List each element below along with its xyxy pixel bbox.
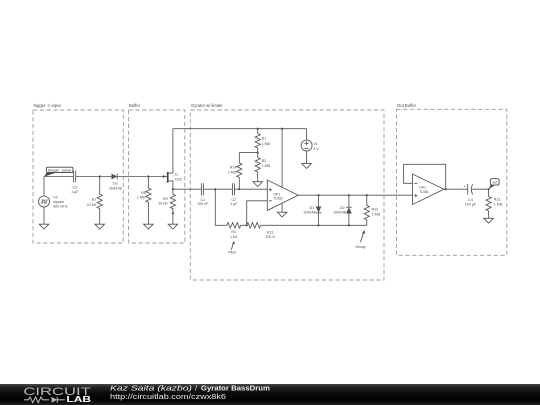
diode D3 1N4148 xyxy=(112,174,118,180)
svg-text:LAB: LAB xyxy=(66,395,91,404)
label OA1 TL081 xyxy=(419,186,429,194)
svg-text:10 kΩ: 10 kΩ xyxy=(158,201,168,205)
label Decay xyxy=(356,245,366,249)
op-amp OP1 TL081 xyxy=(267,180,298,210)
resistor R8 xyxy=(146,177,151,225)
wire J1 drain up xyxy=(172,129,174,173)
wire source node to C1 xyxy=(173,188,202,190)
resistor R14 xyxy=(237,153,242,190)
wire OP1 minus feedback xyxy=(247,201,268,226)
svg-text:1 MΩ: 1 MΩ xyxy=(372,213,381,217)
ground below V1 xyxy=(302,164,312,169)
capacitor C1 xyxy=(201,183,203,195)
junction at R8 top xyxy=(147,175,149,177)
wire V1 top lead xyxy=(306,129,308,140)
svg-text:1N4148: 1N4148 xyxy=(334,211,346,215)
voltage source V1 (5 V) xyxy=(301,140,312,151)
svg-text:D1: D1 xyxy=(310,206,315,210)
svg-text:C2: C2 xyxy=(231,198,236,202)
junction at J1 source node xyxy=(172,188,174,190)
svg-text:http://circuitlab.com/czwx8k6: http://circuitlab.com/czwx8k6 xyxy=(110,392,226,401)
svg-text:D3: D3 xyxy=(113,182,118,186)
label D3 1N4148 xyxy=(109,182,122,191)
section box: trigger -> input xyxy=(33,110,123,243)
section label: Out Buffer xyxy=(397,103,417,108)
voltage source V2 (square 500 mHz) xyxy=(39,196,50,207)
label R11 100 Ohm xyxy=(265,231,275,240)
junction D2 top xyxy=(348,194,350,196)
junction out node xyxy=(488,188,490,190)
svg-text:1 MΩ: 1 MΩ xyxy=(137,196,146,200)
svg-text:R7: R7 xyxy=(92,198,97,202)
resistor R13 xyxy=(486,189,491,218)
wire C3 to D3 xyxy=(76,176,112,178)
ground below R7 xyxy=(95,224,105,229)
svg-text:R12: R12 xyxy=(372,208,379,212)
svg-text:100 µF: 100 µF xyxy=(465,203,477,207)
svg-text:1N4148: 1N4148 xyxy=(303,211,315,215)
svg-text:1 MΩ: 1 MΩ xyxy=(494,203,503,207)
label V2 square 500 mHz xyxy=(53,195,68,208)
section box: Buffer xyxy=(129,110,185,243)
svg-text:Buffer: Buffer xyxy=(129,103,141,108)
svg-text:Gyrator w/ limiter: Gyrator w/ limiter xyxy=(191,103,223,108)
node flag trigger_pulse xyxy=(44,167,73,177)
wire R1R2 node to R14 xyxy=(239,152,257,154)
svg-text:Pitch: Pitch xyxy=(228,251,236,255)
svg-text:10 kΩ: 10 kΩ xyxy=(87,203,97,207)
svg-text:R13: R13 xyxy=(494,198,501,202)
svg-text:TL081: TL081 xyxy=(419,190,429,194)
annotation arrow Pitch xyxy=(231,241,235,250)
resistor R9 xyxy=(170,189,175,224)
transistor J1 (J310 n-JFET) xyxy=(163,172,173,183)
svg-text:C1: C1 xyxy=(200,198,205,202)
svg-text:trigger_pulse: trigger_pulse xyxy=(48,168,72,173)
wire supply line to OP1 xyxy=(281,129,283,188)
svg-text:R1: R1 xyxy=(262,137,267,141)
wire C4 to out node xyxy=(471,188,488,190)
wire V2 top lead xyxy=(43,177,45,197)
ground below V2 xyxy=(39,224,49,229)
ground below R9 xyxy=(168,224,178,229)
label C2 1 uF xyxy=(230,198,238,206)
ground below R2 xyxy=(253,182,263,187)
section label: trigger -&gt; input xyxy=(34,103,62,108)
logo squiggle diode xyxy=(57,397,65,403)
junction OA1 output/feedback xyxy=(445,188,447,190)
resistor R12 xyxy=(364,195,369,225)
label R9 10 kOhm xyxy=(158,197,168,206)
svg-text:100 nF: 100 nF xyxy=(197,202,209,206)
svg-text:D2: D2 xyxy=(340,206,345,210)
svg-text:square: square xyxy=(53,200,64,204)
wire top rail (drain to V1) xyxy=(173,128,307,130)
wire D3 to JFET gate xyxy=(117,176,167,178)
svg-text:1 kΩ: 1 kΩ xyxy=(230,235,238,239)
wire node A down to R3 xyxy=(215,189,227,225)
label J1 J310 xyxy=(174,172,181,181)
junction at R1 top rail xyxy=(257,128,259,130)
ground below R13 xyxy=(484,218,494,223)
label C3 1 uF xyxy=(71,186,79,195)
capacitor C2 xyxy=(232,183,234,195)
junction at R7 top xyxy=(99,175,101,177)
resistor R3 xyxy=(227,223,247,228)
svg-text:1 MΩ: 1 MΩ xyxy=(228,171,237,175)
svg-text:5 V: 5 V xyxy=(313,147,319,151)
footer bar xyxy=(0,384,540,405)
junction D2 bottom xyxy=(348,224,350,226)
wire lower limiter rail xyxy=(319,224,367,226)
svg-text:TL081: TL081 xyxy=(273,197,283,201)
svg-text:V2: V2 xyxy=(53,195,57,199)
label R13 1 MOhm xyxy=(494,198,503,207)
label R1 1 MOhm xyxy=(262,137,271,146)
svg-text:500 mHz: 500 mHz xyxy=(53,204,68,208)
wire V1 bottom lead xyxy=(306,151,308,164)
label R3 1 kOhm xyxy=(230,230,238,239)
wire OP1 ground stub xyxy=(281,203,283,212)
label D1 1N4148 xyxy=(303,206,315,215)
wire J1 source down xyxy=(172,181,174,189)
svg-text:100 Ω: 100 Ω xyxy=(265,235,275,239)
wire OA1 output to C4 xyxy=(444,188,468,190)
label R7 10 kOhm xyxy=(87,198,97,207)
section label: Buffer xyxy=(129,103,141,108)
junction at R14 bottom xyxy=(238,188,240,190)
label R8 1 MOhm xyxy=(137,191,146,200)
svg-text:C3: C3 xyxy=(72,186,77,190)
wire C2 to OP1 plus input xyxy=(234,188,267,190)
section box: Out Buffer xyxy=(397,109,507,255)
junction node B (R3/R11/feedback) xyxy=(246,224,248,226)
label V1 5 V xyxy=(313,142,319,151)
junction R12 top xyxy=(366,194,368,196)
ground below R8 xyxy=(144,224,154,229)
wire joint below R9 xyxy=(172,212,174,214)
capacitor C3 xyxy=(74,171,76,183)
svg-text:trigger -> input: trigger -> input xyxy=(34,103,62,108)
label Pitch xyxy=(228,251,236,255)
svg-text:V1: V1 xyxy=(313,142,317,146)
svg-text:Decay: Decay xyxy=(356,245,366,249)
junction D1 bottom xyxy=(317,224,319,226)
label C1 100 nF xyxy=(197,198,209,206)
svg-text:R2: R2 xyxy=(262,159,267,163)
wire OA1 feedback loop xyxy=(404,164,446,189)
svg-text:1 MΩ: 1 MΩ xyxy=(262,164,271,168)
label R14 1 MOhm xyxy=(228,166,237,175)
label OP1 TL081 xyxy=(273,193,283,201)
node flag out xyxy=(489,179,499,190)
svg-text:R8: R8 xyxy=(141,191,146,195)
capacitor C4 100 uF (polarized) xyxy=(463,184,472,195)
wire C1 to C2 xyxy=(203,188,232,190)
label R12 1 MOhm xyxy=(372,208,381,217)
svg-text:J1: J1 xyxy=(174,172,178,176)
junction node A (C1/C2/R3) xyxy=(214,188,216,190)
label C4 100 uF xyxy=(465,198,477,207)
junction D1 top xyxy=(317,194,319,196)
svg-text:Out Buffer: Out Buffer xyxy=(397,103,417,108)
svg-text:1 µF: 1 µF xyxy=(71,190,79,194)
section label: Gyrator w/ limiter xyxy=(191,103,223,108)
wire V2 bottom lead xyxy=(43,207,45,224)
svg-text:out: out xyxy=(492,181,497,185)
label D2 1N4148 xyxy=(334,206,346,215)
svg-text:R11: R11 xyxy=(267,231,273,235)
wire OP1 output to OA1 xyxy=(298,194,412,196)
resistor R11 xyxy=(247,223,319,228)
resistor R2 xyxy=(255,153,260,182)
label R2 1 MOhm xyxy=(262,159,271,168)
diode D2 1N4148 (pointing up) xyxy=(346,195,352,225)
op-amp OA1 TL081 xyxy=(413,174,445,205)
svg-text:R3: R3 xyxy=(231,230,236,234)
section box: Gyrator w/ limiter xyxy=(190,110,384,280)
resistor R1 xyxy=(255,129,260,153)
svg-text:J310: J310 xyxy=(174,178,181,182)
ground below OP1 xyxy=(277,212,287,217)
svg-text:R14: R14 xyxy=(230,166,237,170)
svg-text:1 MΩ: 1 MΩ xyxy=(262,142,271,146)
wire node to C3 xyxy=(44,176,74,178)
resistor R7 xyxy=(97,177,102,225)
svg-text:1 µF: 1 µF xyxy=(230,202,238,206)
svg-text:1N4148: 1N4148 xyxy=(109,186,122,190)
svg-text:R9: R9 xyxy=(163,197,168,201)
logo squiggle resistor xyxy=(24,397,65,403)
svg-text:C4: C4 xyxy=(468,198,473,202)
diode D1 1N4148 (pointing down) xyxy=(316,195,322,225)
junction R1/R2/R14 node xyxy=(257,152,259,154)
svg-text:+: + xyxy=(463,184,466,189)
junction supply line on rail xyxy=(281,128,283,130)
annotation arrow Decay xyxy=(360,230,365,243)
